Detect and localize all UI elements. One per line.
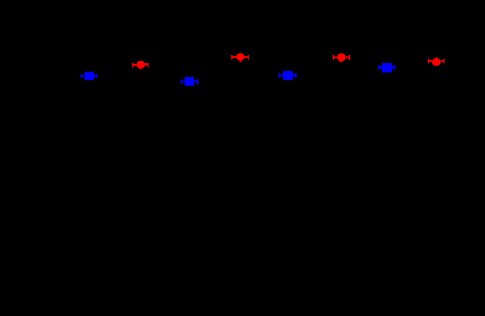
bond H-O1 [133,64,137,66]
atom group N4 (H-N-H, blue) [378,63,396,72]
atom group N2 (H-N-H, blue) [181,77,199,86]
atom H (right of O2) [248,55,249,60]
bond H-N3 [280,75,283,77]
wire: bond N3-C6 [297,65,313,75]
bond O1-H [145,63,148,65]
bond H-O2 [233,56,237,58]
atom O3 [337,53,346,61]
atom O4 [432,58,441,66]
atom H (right of O3) [349,55,350,60]
bond O1 lower stub [140,68,142,69]
bond H-N4 [380,66,382,68]
atom O2 [236,53,244,61]
wire: bond O2-C5 [240,62,256,74]
wire: bond O1-C3 [149,65,165,77]
bond O3-H [346,56,349,58]
wire: bond C2-O1 [114,70,140,88]
wire: bond C6-O3 [313,57,333,65]
bond N1-H [94,75,96,77]
wire: bond C5-N3 [256,74,279,75]
atom H (right of N1) [96,74,97,78]
atom N1 [85,72,94,80]
atom H (right of N3) [295,73,297,78]
wire: bond O3-C7 [341,62,357,72]
atom H (right of O1) [148,63,149,68]
atom group O4 (H-O-H, red) [428,57,445,66]
bond O2-H [245,56,248,58]
atom H (left of O2) [231,55,232,60]
wire: bond N4-C8 [396,60,412,67]
wire: bond N1-C2 [98,76,114,88]
bond O4-H [441,60,443,62]
atom H (left of N2) [181,79,182,84]
wire: bond C3-N2 [165,77,181,82]
atom H (right of O4) [443,59,444,63]
bond H-N2 [182,81,185,83]
bond N3-H [293,74,295,76]
wire: bond C0-N1 [63,63,81,75]
bond H-O3 [334,56,337,58]
bond H-O4 [429,60,432,62]
bond N4-H [392,66,394,68]
wire: bond C4-O2 [215,57,231,70]
atom H (left of N4) [378,65,380,69]
atom H (right of N2) [197,79,199,84]
atom H (right of N4) [394,65,396,69]
atom H (left of O1) [132,63,133,68]
atom H (left of O4) [428,59,429,64]
atom group O2 (H-O-H, red) [231,53,249,62]
atom group N1 (H-N-H, blue) [81,72,98,80]
atom group O1 (H-O-H, red) [132,61,149,70]
wire: bond C7-N4 [357,67,378,72]
atom O1 [137,61,146,69]
bond O2 lower stub [240,60,242,62]
atom group N3 (H-N-H, blue) [279,71,297,80]
atom N2 [185,77,194,86]
bond O3 lower stub [340,61,342,62]
wire: bond N2-C4 [199,70,215,81]
atom H (left of N3) [279,73,280,78]
wire: bond C8-O4 [412,60,428,61]
atom N3 [283,71,293,80]
atom group O3 (H-O-H, red) [333,53,351,62]
bond O4 upper stub [436,57,438,58]
atom N4 [382,63,392,72]
wire: carbon skeleton chain (black bonds, drawn for structure) [63,57,428,88]
bond N2-H [194,81,197,83]
atom H (left of O3) [333,55,334,60]
bond H-N1 [82,75,85,77]
atom H (left of N1) [81,74,82,78]
